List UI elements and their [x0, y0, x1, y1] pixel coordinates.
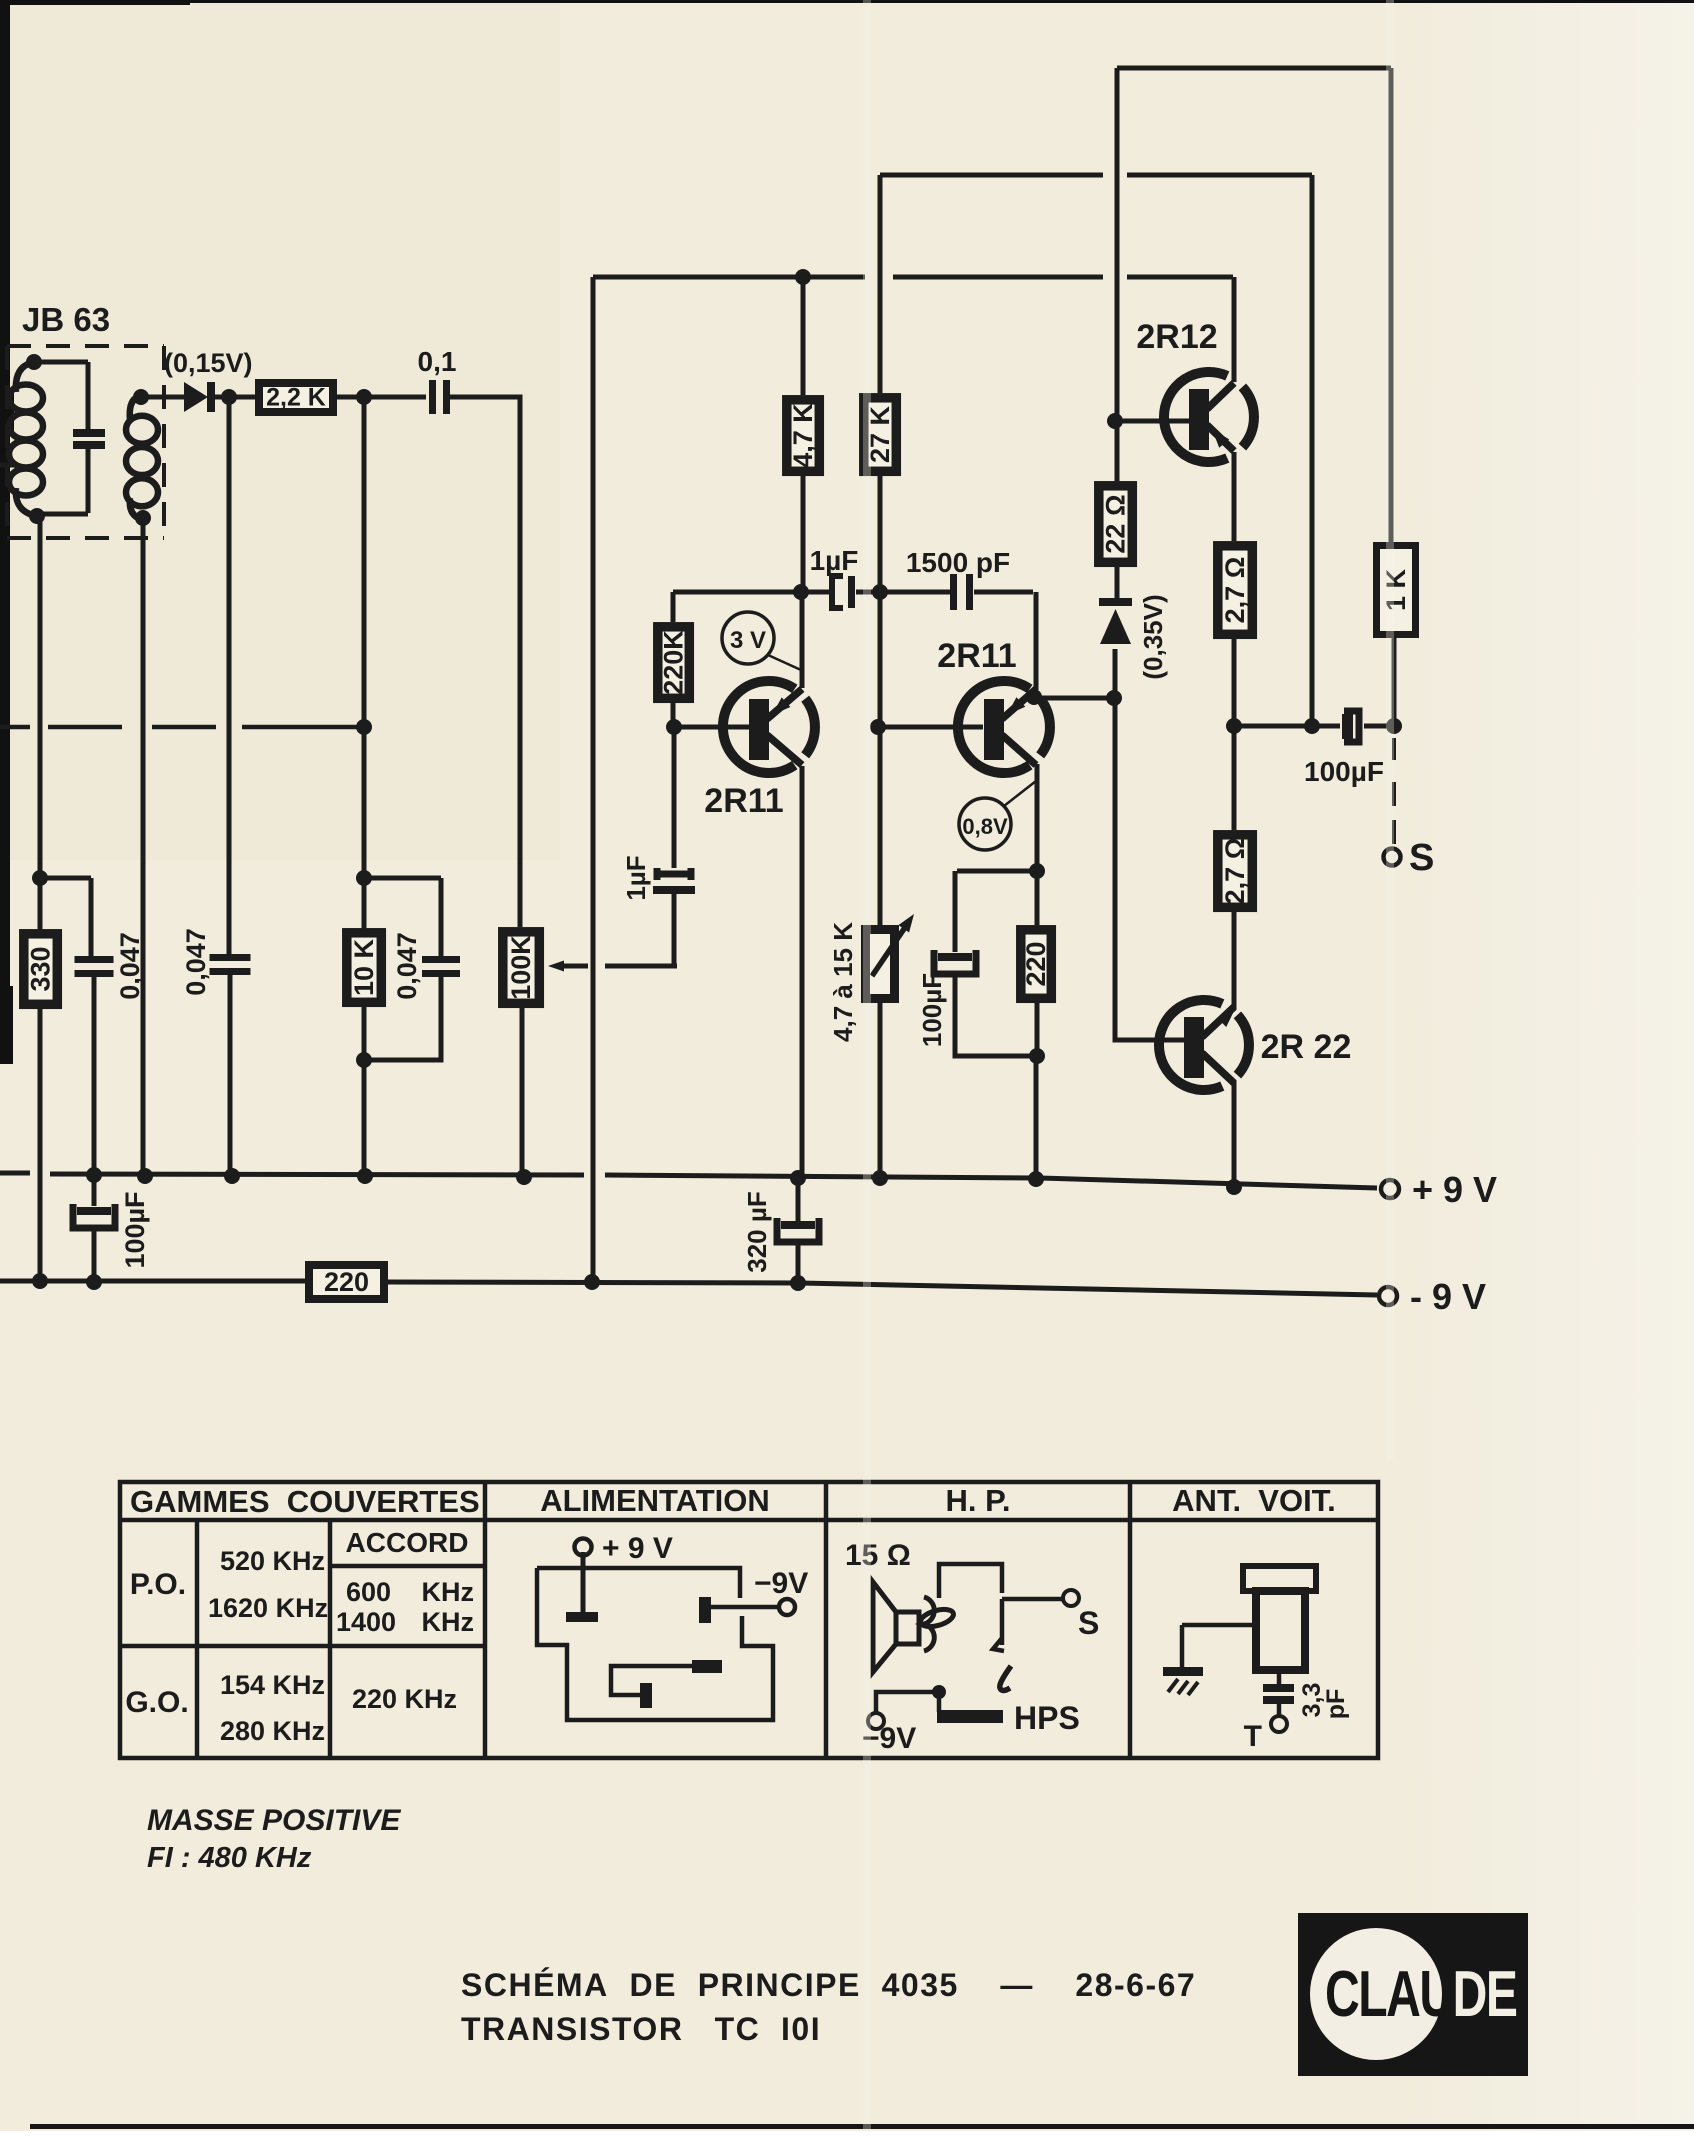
wire node L1-bottom down to -9V rail: [38, 516, 43, 1281]
label 100uF C4: [120, 1191, 150, 1268]
table header ANT. VOIT.: [1172, 1483, 1336, 1518]
svg-text:CLAUDE: CLAUDE: [1325, 1958, 1516, 2031]
capacitor C6 0,047 parallel: [356, 878, 460, 1068]
svg-text:100µF: 100µF: [917, 973, 947, 1047]
svg-text:ACCORD: ACCORD: [346, 1527, 469, 1558]
svg-text:P.O.: P.O.: [130, 1568, 186, 1601]
potentiometer R4 100K volume: [503, 932, 540, 1004]
voltmeter circle 0,8V: [959, 781, 1036, 850]
ground symbol: [1163, 1667, 1203, 1695]
label 0,047 C3: [115, 932, 145, 1000]
label 15 ohm: [845, 1539, 911, 1572]
svg-text:2R11: 2R11: [937, 637, 1016, 675]
wire Q1 emitter up: [800, 592, 805, 688]
antenna tap wire: [0, 463, 18, 468]
wire R11 to node C: [1226, 639, 1242, 734]
svg-text:2,7 Ω: 2,7 Ω: [1220, 557, 1250, 624]
wire right bus x1115: [1115, 68, 1186, 1040]
svg-text:MASSE POSITIVE: MASSE POSITIVE: [147, 1804, 401, 1837]
label Q4 2R22: [1261, 1028, 1352, 1066]
wire 27K top corner: [880, 173, 1312, 178]
wire R1 to node B: [337, 389, 372, 405]
terminal -9V battery: [754, 1567, 808, 1615]
wire Q2 collector up: [1034, 592, 1039, 690]
svg-text:S: S: [1409, 837, 1434, 879]
table grid: [120, 1482, 1378, 1758]
svg-text:1500 pF: 1500 pF: [906, 547, 1010, 578]
svg-text:(0,15V): (0,15V): [164, 348, 253, 378]
wire speaker line y726: [1234, 718, 1402, 734]
resistor R3 10K: [347, 933, 382, 1003]
resistor R9 220: [1021, 930, 1052, 999]
svg-text:ALIMENTATION: ALIMENTATION: [540, 1483, 770, 1518]
cell 1400 KHz: [336, 1607, 474, 1637]
label 320uF: [742, 1191, 772, 1272]
wire 27K vertical: [870, 175, 888, 1177]
wiper arrow R4: [548, 961, 588, 972]
svg-text:2R12: 2R12: [1136, 318, 1217, 356]
cell 1620 KHz: [208, 1593, 328, 1623]
label 4,7 a 15K: [828, 922, 858, 1042]
svg-text:2,7 Ω: 2,7 Ω: [1220, 838, 1250, 905]
wire feedback top: [593, 269, 1233, 285]
cell 600 KHz: [346, 1577, 474, 1607]
svg-text:2R11: 2R11: [704, 782, 783, 820]
resistor R10 22: [1099, 486, 1133, 563]
wire L2 top to diode D1: [141, 395, 184, 400]
table header ALIMENTATION: [540, 1483, 770, 1518]
svg-text:KHz: KHz: [422, 1607, 475, 1637]
svg-text:S: S: [1078, 1605, 1099, 1641]
label 1uF C9: [621, 855, 651, 900]
svg-text:0,047: 0,047: [392, 932, 422, 1000]
note FI 480 KHz: [147, 1842, 312, 1874]
title line 1: [461, 1967, 1196, 2003]
resistor R6 27K: [864, 398, 897, 472]
wire node B down: [362, 397, 367, 1176]
table header GAMMES COUVERTES: [130, 1484, 480, 1519]
capacitor C1 tuning (in JB63): [73, 362, 105, 513]
label 100uF C12: [1304, 756, 1384, 787]
capacitor C2 0,1: [429, 380, 450, 414]
terminal +9V: [1381, 1169, 1497, 1210]
node 330 tap: [32, 870, 91, 886]
table header H.P.: [946, 1483, 1011, 1518]
resistor R12 1K: [1377, 546, 1416, 635]
wire Q3 collector up: [1232, 277, 1237, 382]
transistor Q3 2R12: [1164, 372, 1254, 462]
coil L1 primary: [9, 354, 45, 524]
capacitor C3 0,047: [75, 956, 114, 977]
svg-text:H. P.: H. P.: [946, 1483, 1011, 1518]
label 100uF C11: [917, 973, 947, 1047]
wire R13 to Q4 emitter: [1232, 912, 1237, 1010]
capacitor C7 1uF coupling: [832, 576, 855, 608]
wire wiper link: [605, 964, 677, 969]
CLAUDE logo: [1298, 1913, 1528, 2076]
cell 220 KHz: [352, 1684, 457, 1714]
svg-text:0,047: 0,047: [181, 928, 211, 996]
wire coupling y592: [673, 590, 1033, 595]
label Q3 2R12: [1136, 318, 1217, 356]
resistor R2 330: [24, 934, 58, 1005]
svg-text:- 9 V: - 9 V: [1410, 1276, 1486, 1317]
wire L1 top to C1: [34, 360, 88, 365]
svg-text:ANT. VOIT.: ANT. VOIT.: [1172, 1483, 1336, 1518]
transformer JB63 dashed outline: [7, 346, 164, 538]
wire 0,047 branch down: [91, 878, 94, 1175]
svg-text:1400: 1400: [336, 1607, 396, 1637]
svg-text:220: 220: [324, 1267, 369, 1297]
wire 220 bottom to rail: [1034, 1056, 1039, 1178]
wire Q1 collector down: [800, 766, 805, 1178]
paper fold creases: [863, 0, 1394, 2131]
transistor Q1 2R11: [723, 681, 815, 773]
title line 2: [461, 2011, 821, 2047]
wire node C to R13: [1232, 726, 1237, 830]
note MASSE POSITIVE: [147, 1804, 401, 1837]
wire L2 bottom down to +9V rail: [141, 520, 146, 1176]
resistor R5 4,7K: [787, 400, 820, 472]
coil L2 secondary: [126, 389, 158, 526]
svg-text:+ 9 V: + 9 V: [1412, 1169, 1497, 1210]
svg-text:pF: pF: [1322, 1689, 1350, 1720]
svg-text:320 µF: 320 µF: [742, 1191, 772, 1272]
diode D1 detector: [184, 382, 215, 412]
svg-text:100K: 100K: [506, 935, 536, 1000]
node B tap upper: [356, 870, 441, 886]
svg-text:2,2 K: 2,2 K: [266, 384, 326, 412]
+9V rail: [0, 1167, 1377, 1195]
svg-text:15 Ω: 15 Ω: [845, 1539, 911, 1572]
svg-text:3 V: 3 V: [730, 627, 766, 654]
svg-text:220 KHz: 220 KHz: [352, 1684, 457, 1714]
wire top loop: [1117, 66, 1391, 71]
resistor R1 2,2K: [259, 383, 333, 412]
resistor R13 2,7 lower: [1218, 835, 1253, 908]
car antenna body: [1243, 1566, 1316, 1670]
svg-text:100µF: 100µF: [1304, 756, 1384, 787]
svg-text:330: 330: [26, 946, 56, 991]
svg-text:22 Ω: 22 Ω: [1101, 494, 1131, 553]
resistor R11 2,7 upper: [1218, 546, 1253, 635]
terminal -9V jack: [862, 1713, 916, 1755]
svg-text:10 K: 10 K: [349, 938, 379, 996]
svg-text:2R 22: 2R 22: [1261, 1028, 1352, 1066]
cell 280 KHz: [220, 1716, 325, 1746]
tuning gang dashed link: [0, 719, 372, 735]
battery cells drawing: [537, 1552, 779, 1720]
antenna ground wire: [1182, 1625, 1252, 1667]
wire diode node down: [229, 397, 230, 1175]
wire Q2 collector to diode node: [1026, 689, 1122, 706]
label (0,15V): [164, 348, 253, 378]
terminal +9V battery: [575, 1532, 673, 1565]
terminal S jack: [1063, 1590, 1099, 1641]
potentiometer R8 4,7 a 15K: [866, 930, 895, 999]
svg-text:G.O.: G.O.: [125, 1686, 188, 1719]
svg-text:1620 KHz: 1620 KHz: [208, 1593, 328, 1623]
capacitor C11 100uF emitter: [934, 871, 1037, 1056]
svg-text:T: T: [1244, 1720, 1262, 1753]
svg-text:0,1: 0,1: [418, 346, 457, 377]
capacitor C10 320uF: [777, 1178, 819, 1283]
wire base bus Q1: [666, 592, 750, 735]
svg-text:220: 220: [1021, 941, 1051, 986]
transistor Q2 2R11: [958, 681, 1050, 773]
svg-text:JB 63: JB 63: [22, 301, 110, 338]
svg-text:TRANSISTOR TC I0I: TRANSISTOR TC I0I: [461, 2011, 821, 2047]
svg-text:0,8V: 0,8V: [962, 814, 1008, 839]
resistor R14 220 rail: [309, 1265, 384, 1299]
capacitor C8 1500pF: [950, 574, 973, 610]
cell 520 KHz: [220, 1546, 325, 1576]
label Q1 2R11: [704, 782, 783, 820]
svg-text:220K: 220K: [659, 630, 689, 695]
arrow R8: [872, 914, 914, 976]
capacitor C12 100uF output: [1342, 711, 1359, 742]
resistor R7 220K: [658, 627, 690, 699]
transistor Q4 2R22: [1159, 1000, 1249, 1090]
node Q3 base: [1107, 413, 1123, 429]
capacitor C5 0,047: [210, 954, 251, 975]
svg-text:KHz: KHz: [422, 1577, 475, 1607]
cell P.O.: [130, 1568, 186, 1601]
svg-text:4,7 K: 4,7 K: [788, 403, 818, 468]
wire feedback right drop: [1310, 175, 1315, 726]
svg-text:1 K: 1 K: [1381, 568, 1411, 611]
label 3,3 pF: [1298, 1683, 1350, 1720]
capacitor C9 1uF AF: [653, 727, 695, 966]
label JB 63: [22, 301, 110, 338]
wire 4,7K leads: [793, 277, 809, 600]
wire to S terminal: [1392, 738, 1396, 844]
svg-text:4,7 à 15 K: 4,7 à 15 K: [828, 922, 858, 1042]
svg-text:FI : 480 KHz: FI : 480 KHz: [147, 1842, 312, 1874]
svg-text:1µF: 1µF: [810, 545, 859, 576]
wire L1 bottom to C1: [37, 512, 88, 517]
wire Q3 emitter down: [1232, 452, 1237, 541]
svg-text:600: 600: [346, 1577, 391, 1607]
wire 1K branch: [1391, 68, 1394, 726]
jack contacts: [993, 1638, 1011, 1691]
voltmeter circle 3V: [722, 612, 801, 670]
label 0,047 C6: [392, 932, 422, 1000]
wire 100K volume top: [518, 397, 523, 927]
label 1500pF: [906, 547, 1010, 578]
wire AVC line: [591, 277, 596, 1281]
cell 154 KHz: [220, 1670, 325, 1700]
label 0,047 C5: [181, 928, 211, 996]
-9V rail: [0, 1273, 1377, 1295]
cell G.O.: [125, 1686, 188, 1719]
diode D2 bias: [1099, 598, 1132, 644]
wire Q4 collector to +9V rail: [1232, 1080, 1237, 1187]
wire D1 to node A: [215, 389, 256, 405]
HPS contact bar: [937, 1700, 1080, 1736]
svg-text:520 KHz: 520 KHz: [220, 1546, 325, 1576]
capacitor C4 100uF rail bypass: [73, 1175, 115, 1282]
svg-text:HPS: HPS: [1014, 1700, 1080, 1736]
wire base bus Q2: [878, 725, 983, 730]
label 1uF C7: [810, 545, 859, 576]
speaker wiring: [939, 1564, 1062, 1645]
wire C2 to corner: [450, 397, 520, 560]
label (0,35V): [1138, 594, 1168, 679]
speaker 15 ohm: [873, 1582, 955, 1672]
terminal T: [1244, 1716, 1287, 1753]
svg-text:1µF: 1µF: [621, 855, 651, 900]
svg-text:(0,35V): (0,35V): [1138, 594, 1168, 679]
svg-text:SCHÉMA DE PRINCIPE 4035: SCHÉMA DE PRINCIPE 4035 — 28-6-67: [461, 1967, 1196, 2003]
label Q2 2R11: [937, 637, 1016, 675]
svg-text:100µF: 100µF: [120, 1191, 150, 1268]
svg-text:154 KHz: 154 KHz: [220, 1670, 325, 1700]
wire 100K bottom to +9V rail: [520, 1008, 525, 1177]
label 0,1: [418, 346, 457, 377]
capacitor 3,3pF: [1263, 1670, 1294, 1716]
wire to -9V jack: [876, 1685, 946, 1713]
terminal -9V: [1379, 1276, 1486, 1317]
wire Q3 base: [1115, 419, 1190, 424]
terminal S: [1384, 837, 1435, 879]
svg-text:GAMMES COUVERTES: GAMMES COUVERTES: [130, 1484, 480, 1519]
cell ACCORD: [346, 1527, 469, 1558]
wire Q2 emitter down: [1029, 764, 1045, 1064]
svg-text:280 KHz: 280 KHz: [220, 1716, 325, 1746]
wire node B to C2: [364, 395, 426, 400]
svg-text:+ 9 V: + 9 V: [602, 1532, 673, 1565]
svg-text:−9V: −9V: [754, 1567, 808, 1600]
